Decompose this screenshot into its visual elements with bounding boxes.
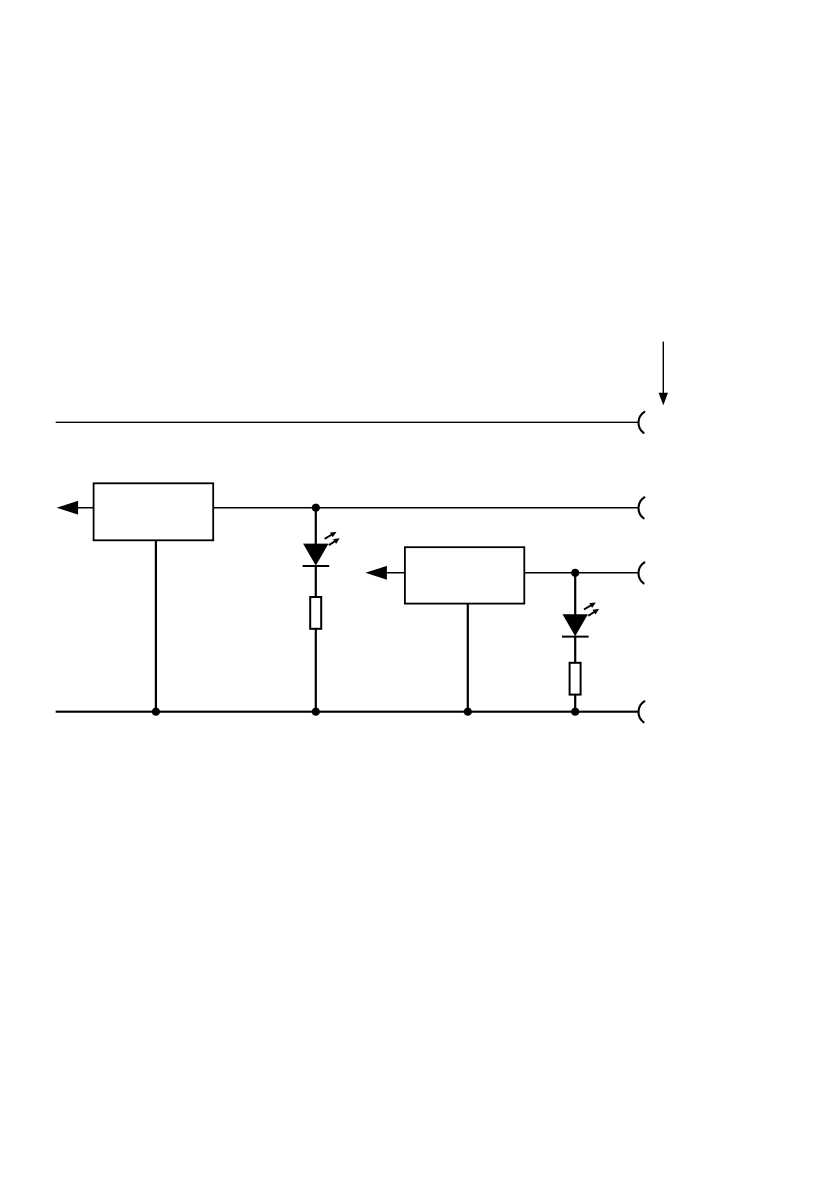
resistor R2 — [570, 663, 581, 695]
arrow: output of U1 (left) — [57, 501, 94, 515]
wire: R2 to bottom rail — [574, 695, 576, 712]
wire: U1 to net B — [213, 507, 638, 509]
wire: D1 cathode to R1 — [315, 566, 317, 598]
arrow: output of U2 (left) — [365, 566, 405, 580]
junction node: R2 / bottom rail — [571, 708, 579, 716]
arrow: insertion direction (down) — [659, 342, 668, 406]
wire: U2 to net C — [524, 572, 638, 574]
LED D1 — [303, 532, 340, 566]
wire: U1 ground stub — [155, 540, 157, 711]
wire: junction to D2 — [574, 573, 576, 615]
junction node: R1 / bottom rail — [312, 708, 320, 716]
block U1 — [94, 483, 214, 540]
wire: junction to D1 — [315, 508, 317, 545]
connector terminal arc, net B — [639, 497, 645, 518]
junction node: U1 stub / bottom rail — [152, 708, 160, 716]
wire: bottom rail (common return) — [56, 711, 639, 713]
wire: D2 cathode to R2 — [574, 637, 576, 664]
LED D2 — [562, 603, 599, 637]
junction node: net C / D2 anode — [571, 569, 579, 577]
wire: R1 to bottom rail — [315, 629, 317, 712]
wire: U2 ground stub — [467, 603, 469, 711]
connector terminal arc, net A — [639, 412, 645, 433]
connector terminal arc, bottom rail — [639, 701, 645, 722]
wire: top rail net A — [56, 421, 639, 423]
connector terminal arc, net C — [639, 562, 645, 583]
junction node: net B / D1 anode — [312, 504, 320, 512]
resistor R1 — [310, 597, 321, 629]
block U2 — [405, 547, 524, 603]
junction node: U2 stub / bottom rail — [464, 708, 472, 716]
